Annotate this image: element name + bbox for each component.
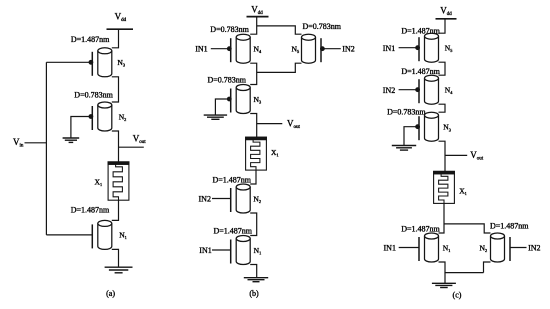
power Vdd (c) bar bbox=[436, 18, 457, 20]
transistor N3 (a) bbox=[89, 48, 112, 77]
svg-text:(b): (b) bbox=[249, 289, 259, 298]
wire IN1 to N4 gate (b) bbox=[211, 48, 229, 50]
wire IN1 to N5 gate (c) bbox=[399, 47, 418, 49]
svg-text:D=1.487nm: D=1.487nm bbox=[401, 67, 440, 76]
transistor N2 (a) bbox=[89, 102, 112, 131]
wire IN1 to N1 gate (b) bbox=[212, 249, 231, 251]
wire N5 gate to IN2 (b) bbox=[323, 48, 341, 50]
wire N2 source to common (c) bbox=[484, 262, 491, 273]
svg-text:D=0.783nm: D=0.783nm bbox=[74, 90, 113, 99]
wire Vout stub (c) bbox=[445, 154, 467, 156]
wire Vout stub (b) bbox=[257, 123, 283, 125]
wire N3 gate to ground (b) bbox=[215, 99, 229, 115]
svg-text:D=1.487nm: D=1.487nm bbox=[490, 222, 529, 231]
wire memristor to N1 drain (c) bbox=[439, 203, 445, 233]
wire N3 source to memristor (c) bbox=[439, 141, 446, 171]
wire common to ground (c) bbox=[444, 273, 446, 284]
wire input rail (a) bbox=[45, 62, 47, 235]
transistor N1 (a) bbox=[92, 220, 112, 249]
svg-text:(c): (c) bbox=[453, 290, 462, 299]
wire IN1 to N1 gate (c) bbox=[399, 247, 419, 249]
wire N2 gate to ground (a) bbox=[71, 117, 91, 138]
power Vdd (b) bar bbox=[247, 16, 269, 18]
wire N2 source to N1 drain (b) bbox=[250, 213, 257, 236]
memristor X1 (b) bbox=[246, 137, 267, 170]
svg-text:D=1.487nm: D=1.487nm bbox=[71, 206, 110, 215]
svg-text:IN1: IN1 bbox=[199, 246, 211, 255]
wire N2 gate to IN2 (c) bbox=[510, 247, 527, 249]
svg-text:D=0.783nm: D=0.783nm bbox=[210, 25, 249, 34]
wire Vin lead (a) bbox=[25, 142, 47, 144]
wire Vdd branch to N5 drain (b) bbox=[257, 26, 302, 34]
wire Vdd to N4 drain (b) bbox=[250, 17, 257, 35]
transistor N1 (c) bbox=[419, 233, 439, 262]
wire N3 source to memristor (b) bbox=[250, 114, 257, 138]
ground at N2 gate (a) bbox=[63, 138, 80, 142]
svg-text:D=0.783nm: D=0.783nm bbox=[303, 22, 342, 31]
wire N4 source to N3 drain (c) bbox=[439, 104, 446, 112]
svg-text:D=1.487nm: D=1.487nm bbox=[401, 225, 440, 234]
wire N5 source branch (b) bbox=[257, 63, 302, 72]
wire branch to N2 drain (c) bbox=[444, 224, 491, 233]
svg-text:D=1.487nm: D=1.487nm bbox=[214, 226, 253, 235]
wire rail to N1 gate (a) bbox=[46, 234, 92, 236]
wire N1 source to ground (a) bbox=[112, 249, 119, 267]
wire memristor to N2 drain (b) bbox=[250, 170, 256, 184]
svg-text:D=0.783nm: D=0.783nm bbox=[387, 107, 426, 116]
power Vdd (a) bar bbox=[107, 28, 134, 30]
wire Vout stub (a) bbox=[119, 146, 144, 148]
wire Vdd to N5 drain (c) bbox=[439, 19, 446, 33]
ground at N3 gate (b) bbox=[204, 115, 227, 119]
svg-text:D=1.487nm: D=1.487nm bbox=[213, 176, 252, 185]
svg-text:(a): (a) bbox=[106, 289, 115, 298]
wire N4 source to N3 drain (b) bbox=[250, 63, 257, 84]
transistor N5 (c) bbox=[415, 33, 438, 62]
transistor N4 (b) bbox=[227, 34, 250, 63]
memristor X1 (c) bbox=[434, 171, 455, 203]
transistor N5 (b) bbox=[302, 34, 325, 63]
transistor N3 (c) bbox=[415, 112, 438, 141]
svg-text:IN2: IN2 bbox=[383, 86, 395, 95]
wire IN2 to N4 gate (c) bbox=[399, 89, 418, 91]
wire N5 source to N4 drain (c) bbox=[439, 62, 446, 75]
wire IN2 to N2 gate (b) bbox=[212, 198, 231, 200]
transistor N4 (c) bbox=[415, 75, 438, 104]
wire memristor to N1 drain (a) bbox=[112, 200, 119, 220]
svg-text:IN2: IN2 bbox=[199, 195, 211, 204]
wire Vdd to N3 drain (a) bbox=[112, 29, 119, 48]
svg-text:IN1: IN1 bbox=[383, 44, 395, 53]
svg-text:IN1: IN1 bbox=[195, 45, 207, 54]
transistor N3 (b) bbox=[227, 85, 250, 114]
transistor N2 (b) bbox=[231, 184, 251, 213]
svg-text:D=1.487nm: D=1.487nm bbox=[71, 35, 110, 44]
ground (a) bbox=[105, 267, 133, 273]
wire N1 source to common (c) bbox=[439, 262, 484, 273]
memristor X1 (a) bbox=[108, 162, 129, 200]
svg-text:IN1: IN1 bbox=[384, 244, 396, 253]
ground at N3 gate (c) bbox=[392, 146, 416, 151]
svg-text:IN2: IN2 bbox=[342, 45, 354, 54]
wire rail to N3 gate (a) bbox=[46, 61, 90, 63]
wire N3 gate to ground (c) bbox=[404, 127, 417, 146]
wire N1 source to ground (b) bbox=[250, 265, 257, 278]
ground (c) bbox=[432, 283, 456, 287]
ground (b) bbox=[244, 278, 268, 282]
transistor N2 (c) bbox=[491, 233, 511, 262]
svg-text:D=0.783nm: D=0.783nm bbox=[208, 76, 247, 85]
wire N2 source to memristor (a) bbox=[112, 131, 119, 162]
wire N3 source to N2 drain (a) bbox=[112, 77, 119, 102]
svg-text:IN2: IN2 bbox=[528, 244, 540, 253]
transistor N1 (b) bbox=[231, 236, 251, 265]
